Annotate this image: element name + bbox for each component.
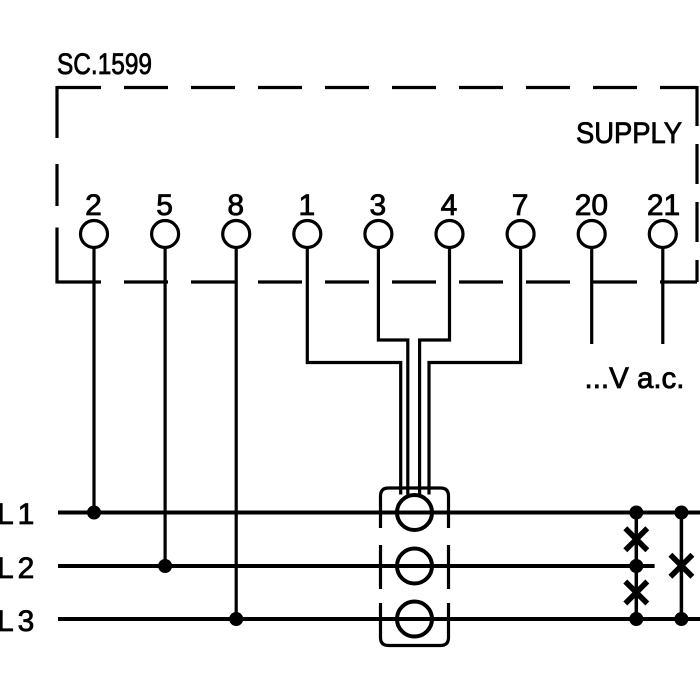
line L1 <box>58 511 700 515</box>
svg-text:2: 2 <box>18 552 35 585</box>
cross mark X on V1 between L1 and L2 <box>625 528 647 550</box>
junction dot L3 / terminal-8 wire <box>229 612 243 626</box>
svg-text:SUPPLY: SUPPLY <box>576 117 682 150</box>
terminal 4 <box>436 221 463 248</box>
wire terminal 2 to L1 <box>92 248 95 513</box>
terminal 1 <box>294 221 321 248</box>
dashed enclosure box top edge <box>57 86 697 89</box>
svg-text:L: L <box>0 605 14 638</box>
terminal 5 <box>152 221 179 248</box>
svg-text:20: 20 <box>575 189 608 222</box>
svg-text:5: 5 <box>156 189 173 222</box>
CT block right side dashes <box>447 496 450 638</box>
svg-text:7: 7 <box>512 189 529 222</box>
dashed enclosure box left edge <box>55 86 58 284</box>
wire terminal 3 to CT primary (inner left) <box>378 248 407 495</box>
junction dot L1 / terminal-2 wire <box>87 506 101 520</box>
wire terminal 21 supply lead <box>661 248 664 345</box>
junction dot L3 / V1 <box>629 612 643 626</box>
junction dot L3 / V2 <box>674 612 688 626</box>
shorting link V2 (between L1 and L3) <box>680 513 684 620</box>
wire terminal 1 to CT primary (outer left) <box>307 248 400 495</box>
terminal 20 <box>578 221 605 248</box>
svg-text:SC.1599: SC.1599 <box>57 48 152 81</box>
svg-text:...V a.c.: ...V a.c. <box>585 362 685 395</box>
terminal 8 <box>223 221 250 248</box>
svg-text:2: 2 <box>85 189 102 222</box>
CT block outline bottom (rounded) <box>381 638 449 646</box>
terminal 21 <box>649 221 676 248</box>
line L2 <box>58 564 655 568</box>
CT ring on L2 <box>397 549 432 584</box>
svg-text:4: 4 <box>441 189 458 222</box>
CT ring on L3 <box>397 602 432 637</box>
line L3 <box>58 617 700 621</box>
wire terminal 5 to L2 <box>164 248 167 567</box>
svg-text:3: 3 <box>18 605 35 638</box>
CT block left side dashes <box>379 496 382 638</box>
svg-text:1: 1 <box>298 189 315 222</box>
svg-text:21: 21 <box>647 189 680 222</box>
wire terminal 8 to L3 <box>235 248 238 620</box>
wire terminal 7 to CT primary (outer right) <box>429 248 521 495</box>
wire terminal 20 supply lead <box>590 248 593 345</box>
svg-text:1: 1 <box>18 498 35 531</box>
cross mark X on V1 between L2 and L3 <box>625 582 647 604</box>
terminal 3 <box>365 221 392 248</box>
terminal 2 <box>81 221 108 248</box>
wire terminal 4 to CT primary (inner right) <box>420 248 450 495</box>
svg-text:8: 8 <box>227 189 244 222</box>
shorting link V1 (between L1-L2-L3) <box>635 513 639 620</box>
junction dot L1 / V2 <box>674 506 688 520</box>
CT block outline top (rounded) <box>381 488 449 496</box>
cross mark X on V2 at mid height <box>670 555 692 577</box>
dashed enclosure box bottom edge <box>57 280 697 283</box>
svg-text:L: L <box>0 498 14 531</box>
CT ring on L1 <box>397 495 432 530</box>
svg-text:L: L <box>0 552 14 585</box>
svg-text:3: 3 <box>370 189 387 222</box>
junction dot L1 / V1 <box>629 506 643 520</box>
dashed enclosure box right edge <box>695 86 698 282</box>
terminal 7 <box>507 221 534 248</box>
junction dot L2 / terminal-5 wire <box>158 559 172 573</box>
junction dot L2 / V1 <box>629 559 643 573</box>
